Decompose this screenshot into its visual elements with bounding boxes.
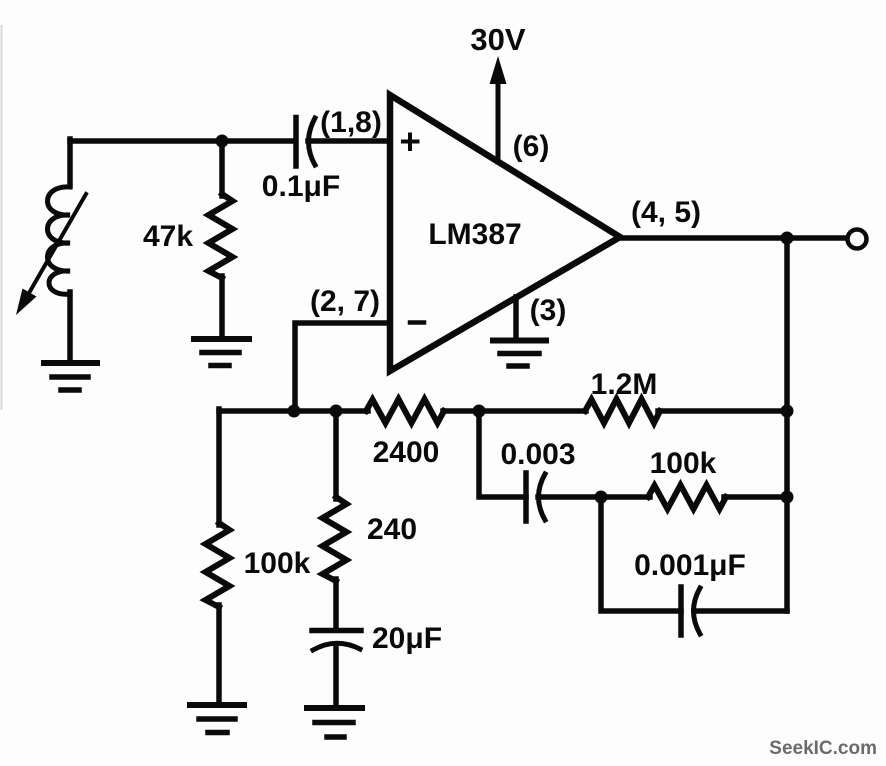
wire 0.003 branch drop and row [479,411,526,497]
node G junction 0.003/0.001 [595,491,608,504]
op-amp U1 LM387 triangle [390,95,620,371]
wire (2,7) input from op-amp [295,323,390,411]
wire top rail from inductor to op-amp + input [70,138,293,144]
svg-text:47k: 47k [143,220,193,253]
node C junction (2,7) on rail [288,405,301,418]
svg-text:0.003: 0.003 [500,438,575,471]
ground G1 (inductor) [44,363,97,390]
resistor R6 240 [323,497,347,581]
ground G5 (20uF) [307,708,362,737]
node F junction right bus at rail [781,405,794,418]
resistor R5 100k input bias [206,523,230,607]
svg-text:(4, 5): (4, 5) [631,196,701,229]
node H junction right bus row2 [781,491,794,504]
op-amp minus sign [410,320,424,325]
resistor R3 1.2M [585,399,660,423]
node B output junction dot [781,232,794,245]
30V supply arrow into pin 6 [490,56,507,162]
wire 47k top [219,141,225,196]
wire right vertical feedback bus [784,238,790,611]
op-amp plus sign [403,135,418,150]
output terminal circle [848,230,867,249]
wire output pin (4,5) to terminal [620,235,847,241]
wire bottom rail [219,408,368,414]
resistor R2 2400 [366,399,444,423]
svg-text:100k: 100k [244,547,311,580]
ground G3 (pin 3) [493,341,546,367]
wire 20uF to ground [333,645,339,707]
svg-text:LM387: LM387 [428,218,521,251]
capacitor C4 20uF [312,631,361,651]
wire 47k bottom to ground [219,276,225,337]
wire inductor bottom to ground [67,292,73,361]
scan artifact left edge [1,25,3,410]
wire 100k to ground [216,605,222,704]
capacitor C1 0.1uF [296,118,315,167]
wire 0.003 to 100k row [538,494,650,500]
resistor R4 100k feedback [648,485,726,509]
arrow across inductor (variable marker) [16,194,86,315]
wire 0.001uF loop [601,497,681,611]
capacitor C2 0.003 [526,473,545,521]
svg-text:2400: 2400 [373,436,440,469]
pin 3 stub to ground [513,297,519,339]
wire 240 branch down [333,411,339,499]
resistor R1 47k [209,194,233,278]
svg-text:100k: 100k [650,447,717,480]
node D junction 240 branch [330,405,343,418]
svg-text:(3): (3) [530,294,567,327]
svg-text:240: 240 [367,513,417,546]
svg-text:1.2M: 1.2M [591,368,658,401]
ground G4 (100k) [190,705,244,733]
ground G2 (47k) [194,339,249,366]
capacitor C3 0.001uF [681,587,700,635]
svg-text:0.1μF: 0.1μF [262,170,340,203]
svg-text:(2, 7): (2, 7) [310,285,380,318]
wire 240 to 20uF [333,579,339,628]
node E junction 0.003 branch [473,405,486,418]
node A junction dot top rail [216,135,229,148]
svg-text:20μF: 20μF [372,622,442,655]
svg-text:(1,8): (1,8) [320,106,382,139]
wire 100k right to bus [724,494,787,500]
svg-text:30V: 30V [470,22,525,57]
wire left drop to inductor [67,139,73,186]
svg-text:(6): (6) [513,130,550,163]
svg-text:0.001μF: 0.001μF [634,549,746,582]
wire left column down [216,409,222,525]
svg-text:SeekIC.com: SeekIC.com [769,738,877,759]
inductor L1 (variable, tapped by arrow) [48,187,71,294]
